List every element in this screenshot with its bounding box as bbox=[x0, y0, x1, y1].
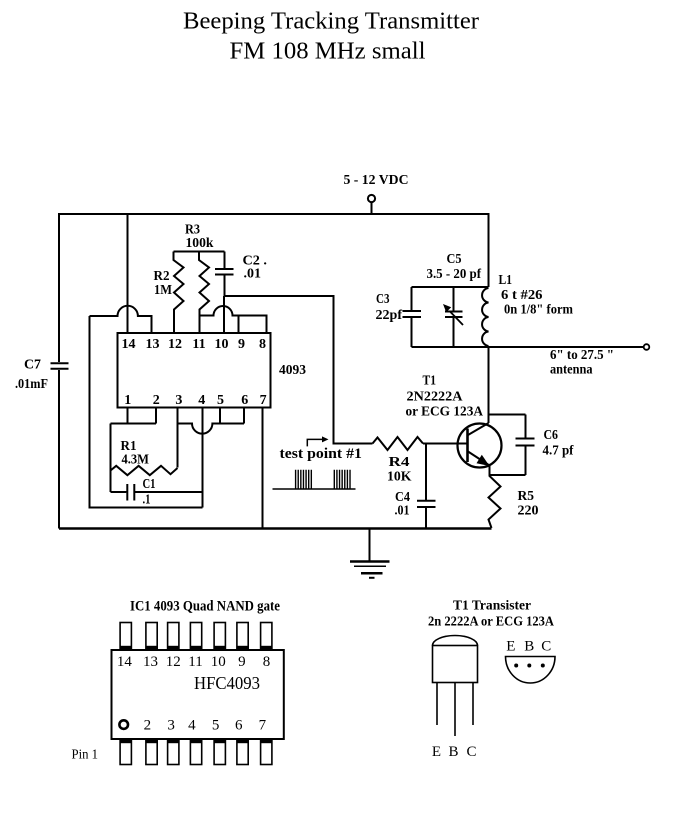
IC1 bottom pin 2 lead bbox=[146, 739, 157, 765]
svg-text:100k: 100k bbox=[186, 236, 214, 251]
wire left loop vertical bbox=[89, 316, 91, 508]
T1 lead C bbox=[472, 683, 474, 726]
IC1 top pin 11 lead bbox=[190, 623, 201, 651]
svg-text:L1: L1 bbox=[499, 273, 513, 288]
transistor T1 collector bbox=[468, 415, 489, 436]
resistor R2 bbox=[174, 252, 184, 334]
capacitor C4 bbox=[417, 501, 436, 529]
svg-text:IC1 4093 Quad NAND gate: IC1 4093 Quad NAND gate bbox=[130, 599, 280, 615]
T1 bottom view outline bbox=[506, 657, 556, 684]
wire top supply rail bbox=[59, 213, 489, 215]
variable capacitor C5 branch bbox=[445, 287, 463, 347]
svg-text:R4: R4 bbox=[389, 455, 410, 470]
wire pin 1 stub bbox=[127, 408, 129, 424]
svg-text:antenna: antenna bbox=[550, 363, 593, 378]
IC1 top pin 10 lead bbox=[214, 623, 225, 651]
svg-text:T1 Transister: T1 Transister bbox=[453, 599, 531, 614]
svg-text:14: 14 bbox=[117, 654, 133, 670]
resistor R3 bbox=[199, 252, 209, 334]
svg-text:C: C bbox=[466, 744, 476, 760]
IC1 pin 1 indicator circle bbox=[119, 720, 128, 729]
svg-text:3: 3 bbox=[167, 718, 175, 734]
T1 lead B bbox=[454, 683, 456, 737]
svg-text:C5: C5 bbox=[447, 252, 462, 267]
capacitor C7 bbox=[51, 363, 69, 368]
variable capacitor C5 arrow bbox=[450, 312, 463, 326]
wire pin 4 vertical to loop bottom bbox=[202, 408, 204, 508]
wire C4 branch bbox=[425, 444, 427, 501]
svg-text:10K: 10K bbox=[387, 470, 412, 485]
svg-text:FM 108 MHz small: FM 108 MHz small bbox=[230, 38, 426, 65]
svg-text:6 t #26: 6 t #26 bbox=[501, 288, 543, 303]
wire tank top bbox=[412, 286, 489, 288]
svg-text:9: 9 bbox=[238, 654, 246, 670]
svg-text:E: E bbox=[506, 639, 515, 655]
svg-text:12: 12 bbox=[166, 654, 181, 670]
svg-text:8: 8 bbox=[259, 337, 266, 352]
svg-text:4: 4 bbox=[198, 393, 205, 408]
waveform burst 1 bbox=[296, 470, 312, 489]
test point arrow bbox=[307, 439, 324, 446]
wire antenna bbox=[489, 346, 645, 348]
IC1 top pin 14 lead bbox=[120, 623, 131, 651]
wire pin 3 vertical bbox=[177, 408, 179, 468]
svg-text:C: C bbox=[541, 639, 551, 655]
svg-text:7: 7 bbox=[259, 718, 267, 734]
IC1 bottom pin 4 lead bbox=[190, 739, 201, 765]
svg-text:11: 11 bbox=[192, 337, 205, 352]
svg-text:1: 1 bbox=[124, 393, 131, 408]
IC U1 4093 box bbox=[118, 333, 271, 408]
wire ground rail bbox=[59, 527, 492, 530]
capacitor C2 bbox=[215, 252, 234, 297]
svg-text:R2: R2 bbox=[154, 269, 170, 284]
wire left rail upper bbox=[58, 213, 60, 362]
svg-text:4.3M: 4.3M bbox=[122, 453, 150, 468]
svg-text:9: 9 bbox=[238, 337, 245, 352]
svg-text:11: 11 bbox=[188, 654, 202, 670]
svg-text:B: B bbox=[524, 639, 534, 655]
svg-text:C1: C1 bbox=[143, 477, 156, 492]
svg-text:13: 13 bbox=[146, 337, 160, 352]
transistor T1 circle bbox=[458, 424, 502, 468]
svg-text:22pf: 22pf bbox=[376, 308, 403, 323]
svg-text:.01mF: .01mF bbox=[15, 377, 48, 392]
svg-text:5: 5 bbox=[212, 718, 220, 734]
svg-text:C7: C7 bbox=[24, 358, 41, 373]
wire R2/R3/C2 top bar bbox=[174, 251, 225, 253]
wire collector to tank bbox=[488, 347, 490, 415]
wire supply to pin 14 bbox=[127, 214, 129, 333]
svg-text:6: 6 bbox=[241, 393, 248, 408]
wire pin 5 stub bbox=[219, 408, 221, 424]
T1 package body bbox=[433, 646, 478, 683]
svg-text:10: 10 bbox=[215, 337, 229, 352]
ground symbol bbox=[350, 560, 390, 563]
T1 package dome bbox=[433, 636, 478, 646]
wire tank bottom bbox=[412, 346, 489, 348]
capacitor C6 bbox=[516, 415, 535, 476]
svg-text:3.5 - 20 pf: 3.5 - 20 pf bbox=[427, 267, 482, 282]
wire pin 6 stub bbox=[243, 408, 245, 424]
svg-text:Pin 1: Pin 1 bbox=[72, 747, 99, 762]
resistor R4 bbox=[373, 437, 424, 450]
wire C2 output to R4 (node) bbox=[225, 296, 373, 444]
transistor T1 emitter bbox=[468, 452, 490, 476]
wire emitter junction to C6 bbox=[490, 474, 526, 476]
IC1 bottom pin 7 lead bbox=[261, 739, 272, 765]
wire pin 7 to ground rail bbox=[262, 408, 264, 529]
wire ground stub bbox=[369, 529, 371, 561]
svg-text:6: 6 bbox=[235, 718, 243, 734]
IC1 bottom pin 6 lead bbox=[237, 739, 248, 765]
waveform baseline bbox=[273, 488, 356, 490]
wire left loop bottom bbox=[89, 507, 203, 509]
svg-text:.1: .1 bbox=[143, 493, 151, 508]
wire pin11/pin9/pin8 with hop over pin10 wire bbox=[200, 306, 267, 333]
capacitor C3 branch bbox=[403, 287, 422, 347]
IC1 package body bbox=[112, 650, 284, 739]
wire left rail lower bbox=[58, 370, 60, 529]
wire pins 1-2 join bbox=[111, 423, 157, 425]
svg-text:C3: C3 bbox=[376, 292, 390, 307]
IC1 bottom pin 1 lead bbox=[120, 739, 131, 765]
svg-text:or ECG 123A: or ECG 123A bbox=[406, 405, 484, 420]
svg-text:test point #1: test point #1 bbox=[280, 446, 362, 462]
svg-text:10: 10 bbox=[211, 654, 226, 670]
svg-text:5 - 12 VDC: 5 - 12 VDC bbox=[344, 173, 409, 188]
IC1 bottom pin 5 lead bbox=[214, 739, 225, 765]
IC1 top pin 8 lead bbox=[261, 623, 272, 651]
svg-text:0n 1/8" form: 0n 1/8" form bbox=[504, 303, 573, 318]
svg-text:2n 2222A or ECG 123A: 2n 2222A or ECG 123A bbox=[428, 615, 555, 630]
waveform burst 2 bbox=[334, 470, 350, 489]
wire right rail top bbox=[488, 213, 490, 287]
svg-text:B: B bbox=[448, 744, 458, 760]
T1 bottom view pin dots bbox=[514, 664, 518, 668]
wire left branch down to R1/C1 bbox=[110, 424, 112, 493]
wire pin 10 vertical bbox=[223, 296, 225, 333]
inductor L1 bbox=[482, 288, 488, 346]
svg-text:R5: R5 bbox=[518, 489, 535, 504]
svg-text:.01: .01 bbox=[395, 504, 410, 519]
wire pin 2 stub bbox=[155, 408, 157, 424]
svg-text:4093: 4093 bbox=[279, 363, 306, 378]
IC1 top pin 12 lead bbox=[168, 623, 179, 651]
wire pins 3-5-6 with hop over pin4 wire bbox=[178, 424, 245, 434]
IC1 bottom pin 3 lead bbox=[168, 739, 179, 765]
svg-text:1M: 1M bbox=[154, 283, 172, 298]
resistor R5 bbox=[489, 475, 501, 528]
svg-text:7: 7 bbox=[260, 393, 267, 408]
svg-text:2: 2 bbox=[153, 393, 160, 408]
svg-text:3: 3 bbox=[175, 393, 182, 408]
wire R4 to base bbox=[423, 443, 467, 445]
svg-text:2N2222A: 2N2222A bbox=[407, 390, 464, 405]
svg-text:HFC4093: HFC4093 bbox=[194, 673, 260, 693]
svg-text:6" to 27.5 ": 6" to 27.5 " bbox=[550, 348, 614, 363]
svg-text:5: 5 bbox=[217, 393, 224, 408]
svg-text:Beeping Tracking Transmitter: Beeping Tracking Transmitter bbox=[183, 8, 479, 35]
transistor T1 base bar bbox=[466, 429, 469, 463]
svg-text:2: 2 bbox=[144, 718, 152, 734]
resistor R1 bbox=[111, 466, 178, 475]
svg-text:E: E bbox=[432, 744, 441, 760]
svg-text:13: 13 bbox=[143, 654, 158, 670]
IC1 top pin 9 lead bbox=[237, 623, 248, 651]
wire collector tee to C6 bbox=[489, 414, 526, 416]
svg-text:.01: .01 bbox=[244, 267, 262, 282]
T1 lead E bbox=[436, 683, 438, 726]
wire power stub bbox=[371, 203, 373, 215]
svg-text:12: 12 bbox=[168, 337, 182, 352]
svg-text:220: 220 bbox=[518, 504, 539, 519]
svg-text:4.7 pf: 4.7 pf bbox=[543, 444, 574, 459]
capacitor C1 bbox=[111, 484, 203, 501]
svg-text:8: 8 bbox=[263, 654, 271, 670]
svg-text:14: 14 bbox=[122, 337, 136, 352]
IC1 top pin 13 lead bbox=[146, 623, 157, 651]
wire pin 9 stub bbox=[238, 316, 240, 334]
svg-text:4: 4 bbox=[188, 718, 196, 734]
svg-text:T1: T1 bbox=[423, 374, 437, 389]
power terminal bbox=[368, 195, 375, 202]
antenna terminal bbox=[644, 344, 650, 350]
wire pin 13 to left loop with hop over pin14 wire bbox=[90, 306, 152, 333]
svg-text:C6: C6 bbox=[544, 428, 559, 443]
